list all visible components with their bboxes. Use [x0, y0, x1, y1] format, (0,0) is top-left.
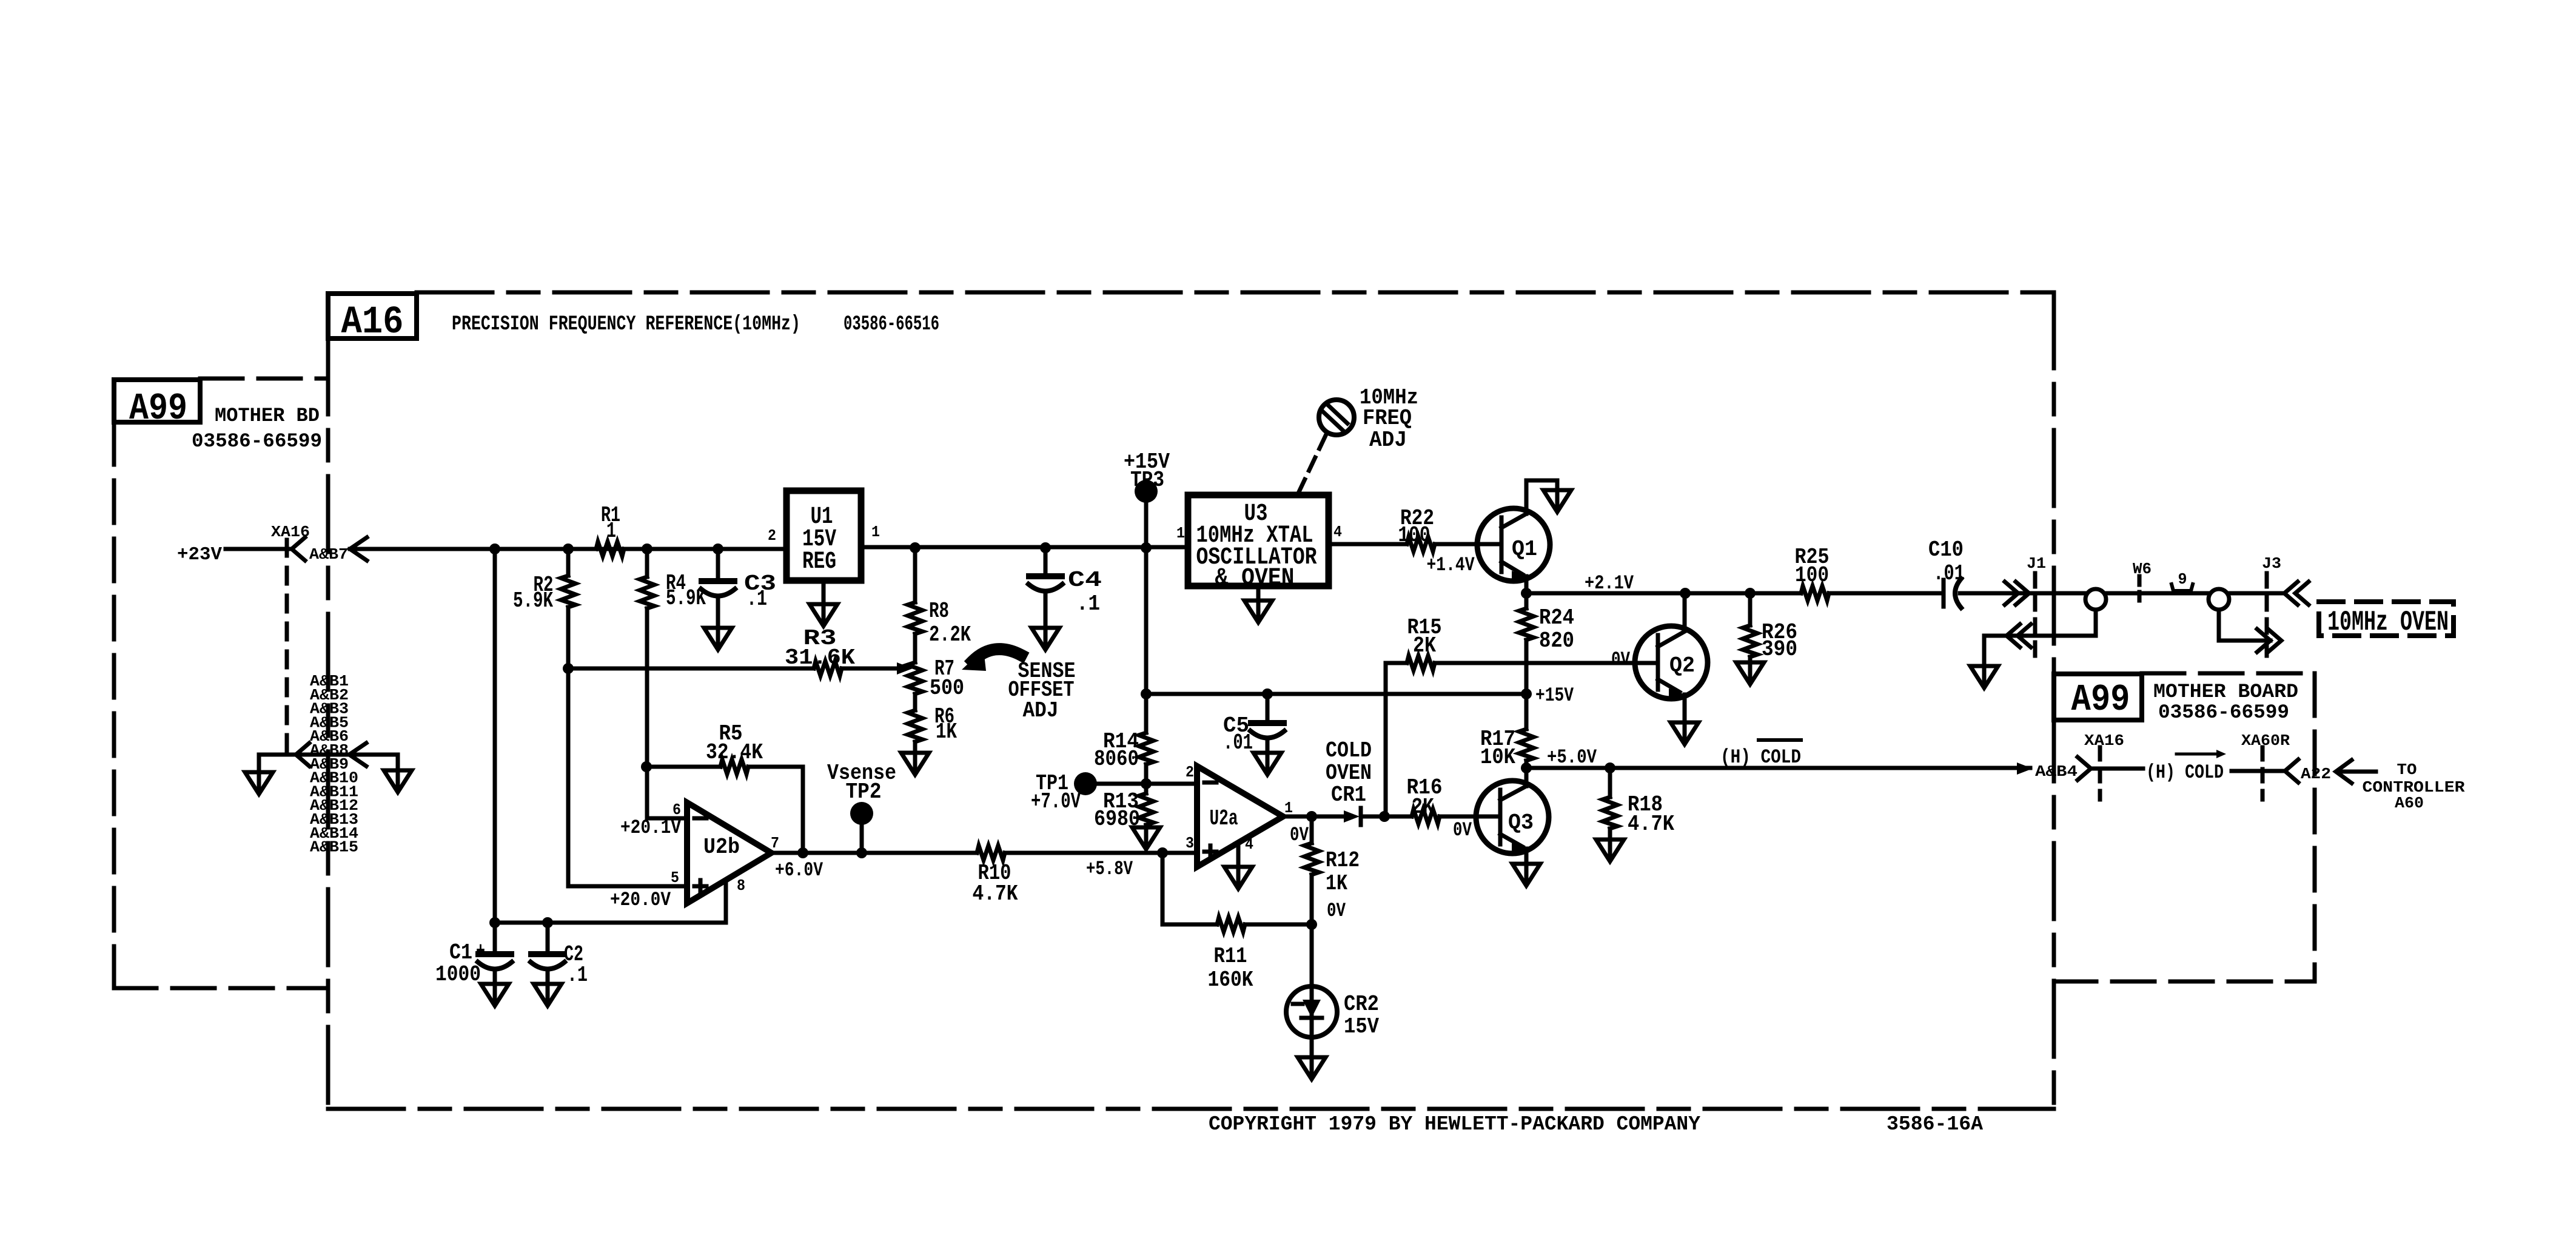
connector XA16 right dashed line: [2098, 747, 2102, 799]
junction R4-R5: [641, 761, 652, 772]
test point TP3: [1124, 449, 1170, 548]
svg-text:10K: 10K: [1480, 745, 1515, 770]
svg-text:C1: C1: [449, 940, 472, 965]
node +20.0V: [610, 889, 671, 911]
svg-text:ADJ: ADJ: [1369, 428, 1407, 453]
junction Q1 emitter: [1521, 588, 1532, 599]
svg-text:C10: C10: [1928, 537, 1964, 562]
junction at R8: [910, 542, 921, 553]
svg-text:REG: REG: [802, 548, 836, 576]
resistor R13: [1094, 789, 1153, 832]
pin 5 label U2b: [671, 869, 679, 887]
connector pin A&B7 label: [309, 545, 348, 564]
connector pin A22 label: [2301, 765, 2331, 783]
pin 4 label U3: [1333, 523, 1342, 541]
junction at C1 drop: [489, 544, 500, 554]
svg-text:500: 500: [930, 676, 964, 701]
svg-text:3586-16A: 3586-16A: [1887, 1113, 1983, 1136]
ground under C2: [534, 984, 562, 1006]
junction TP2: [856, 847, 867, 858]
connector J3 dashed line: [2265, 573, 2269, 661]
svg-text:5.9K: 5.9K: [513, 588, 553, 613]
junction at TP1: [1141, 778, 1152, 789]
wire U2a out to CR1: [1283, 815, 1344, 819]
ground under C4: [1031, 628, 1059, 650]
svg-text:15V: 15V: [1344, 1014, 1379, 1039]
junction at C3: [713, 544, 723, 554]
to controller label: [2363, 761, 2465, 812]
wire +2.1V rail: [1526, 591, 1801, 596]
ground under U3: [1244, 586, 1272, 622]
svg-text:100: 100: [1795, 563, 1829, 588]
capacitor C1: [435, 923, 512, 987]
connector XA16 left dashed line: [285, 540, 289, 763]
pin 2 label U1: [768, 527, 776, 545]
resistor R6: [908, 704, 957, 753]
wire A&B8/A&B9 ground line: [259, 755, 398, 772]
wire A&B4 to (H)COLD: [2091, 767, 2143, 771]
A99 right label text: [2071, 678, 2130, 721]
resistor R26: [1743, 593, 1797, 662]
svg-text:+20.0V: +20.0V: [610, 889, 671, 911]
svg-text:TO: TO: [2397, 761, 2417, 779]
svg-text:R11: R11: [1214, 944, 1247, 969]
wire J3 return: [2219, 610, 2270, 641]
svg-text:2.2K: 2.2K: [929, 622, 971, 647]
node +15V label: [1535, 684, 1574, 707]
wire U2b output: [771, 851, 977, 855]
svg-text:A60: A60: [2395, 794, 2424, 812]
svg-text:A&B4: A&B4: [2035, 762, 2078, 781]
svg-text:Q1: Q1: [1512, 537, 1537, 562]
svg-text:03586-66599: 03586-66599: [2158, 701, 2289, 724]
pin 2 label U2a: [1186, 763, 1194, 781]
A99 right label box: [2054, 674, 2142, 720]
svg-text:+23V: +23V: [177, 544, 222, 565]
wire (H)COLD to A22: [2232, 769, 2285, 773]
junction R11-R12-CR2: [1306, 919, 1317, 930]
capacitor C4: [1028, 548, 1102, 628]
op-amp U2b: [687, 803, 771, 903]
resistor R4: [640, 549, 706, 818]
zener CR2: [1286, 924, 1379, 1057]
junction R24-R17: [1521, 688, 1532, 699]
wire C1-C2-pin8 rail: [495, 921, 726, 925]
resistor R11: [1162, 917, 1312, 992]
A99 left label box: [114, 380, 200, 422]
wire C10 to J1: [1960, 591, 2029, 596]
connector J1 dashed line: [2033, 573, 2038, 661]
ground under CR2: [1298, 1057, 1326, 1079]
10MHz oven box: [2319, 602, 2454, 636]
junction at R4: [642, 544, 652, 554]
junction U2a pin3: [1157, 847, 1168, 858]
wire R22 to Q1 base: [1435, 542, 1501, 547]
capacitor C3: [701, 549, 776, 628]
junction R12 top: [1306, 811, 1317, 822]
cable W6 bullet 2: [2209, 589, 2229, 610]
wire +15V vertical drop: [1144, 548, 1149, 733]
svg-text:03586-66599: 03586-66599: [192, 430, 322, 453]
svg-text:C4: C4: [1068, 568, 1102, 593]
wire J1 return: [1984, 610, 2096, 666]
wire J1 to W6: [2029, 591, 2284, 596]
node 0V at R12 bottom: [1327, 900, 1346, 922]
svg-text:+5.8V: +5.8V: [1086, 858, 1133, 880]
node +2.1V: [1585, 572, 1634, 594]
test point TP1: [1031, 771, 1146, 814]
junction R15 drop: [1379, 811, 1390, 822]
A16 label text: [341, 301, 404, 345]
pin 8 label U2b: [737, 877, 745, 895]
wire +5.0V to A&B4: [1526, 766, 2030, 770]
resistor R3: [568, 626, 903, 676]
sense offset adj arrow: [962, 649, 1021, 671]
A16 board border: [328, 292, 2054, 1109]
resistor R22: [1398, 506, 1435, 551]
svg-text:820: 820: [1539, 628, 1574, 653]
svg-text:+: +: [476, 939, 485, 964]
svg-text:Q3: Q3: [1508, 810, 1534, 835]
resistor R18: [1603, 768, 1674, 840]
pin 1 label U3: [1176, 524, 1185, 542]
wire arrowhead at A&B9: [349, 743, 366, 766]
wire +23V to C1: [493, 549, 497, 923]
resistor R15: [1386, 615, 1658, 670]
junction at R2: [563, 544, 574, 554]
svg-text:U2b: U2b: [703, 835, 740, 860]
svg-text:390: 390: [1762, 637, 1797, 662]
svg-text:+1.4V: +1.4V: [1427, 554, 1475, 576]
svg-text:31.6K: 31.6K: [785, 645, 855, 670]
svg-text:A16: A16: [341, 301, 404, 345]
ground under Q3: [1512, 864, 1540, 886]
cable W6 label: [2133, 560, 2152, 578]
A99 left label text: [129, 387, 187, 430]
svg-text:8060: 8060: [1094, 747, 1139, 772]
node 0V at Q3 base: [1453, 819, 1472, 841]
potentiometer R7: [908, 656, 964, 701]
cable W6 dashed tick: [2138, 576, 2142, 605]
connector J3 chevrons: [2284, 582, 2309, 605]
connector pin A22 chevron: [2285, 759, 2298, 782]
mother bd text: [192, 405, 322, 453]
svg-text:4.7K: 4.7K: [973, 881, 1018, 906]
wire +15V horizontal: [1146, 692, 1526, 696]
svg-text:3: 3: [1186, 834, 1194, 852]
wire U2a pin4 ground: [1236, 843, 1241, 867]
connector J1 chevrons: [2005, 582, 2029, 605]
capacitor C2: [531, 923, 588, 988]
svg-text:(H) COLD: (H) COLD: [2146, 761, 2224, 784]
resistor R17: [1480, 694, 1534, 770]
connector J1 label: [2027, 554, 2046, 573]
node (H) COLD left: [1720, 740, 1801, 769]
svg-text:5: 5: [671, 869, 679, 887]
svg-text:FREQ: FREQ: [1363, 406, 1412, 431]
A99 left board border: [114, 379, 328, 988]
resistor R14: [1094, 729, 1153, 793]
svg-text:0V: 0V: [1453, 819, 1472, 841]
ground under R13: [1132, 827, 1160, 849]
svg-text:1K: 1K: [1326, 871, 1347, 896]
ground right of A&B list: [384, 770, 412, 792]
ground under C3: [704, 628, 732, 650]
svg-text:4: 4: [1333, 523, 1342, 541]
resistor R25: [1795, 545, 1830, 601]
svg-text:4: 4: [1245, 835, 1253, 853]
wire arrowhead at A&B4: [2017, 762, 2033, 775]
ground under Q2: [1671, 722, 1699, 744]
svg-text:8: 8: [737, 877, 745, 895]
node +1.4V: [1427, 554, 1475, 576]
node 0V at Q2 base: [1611, 648, 1631, 671]
connector pin A&B8 chevron: [296, 743, 309, 766]
svg-text:1: 1: [871, 523, 880, 541]
wire pin3 to R11: [1161, 853, 1165, 924]
svg-text:XA16: XA16: [2084, 732, 2124, 750]
ground at Q1 collector: [1526, 480, 1571, 512]
junction C1: [489, 917, 500, 928]
svg-text:CR1: CR1: [1331, 782, 1366, 807]
board part number: [844, 313, 939, 336]
voltage regulator U1: [787, 491, 861, 581]
connector XA60R label: [2241, 732, 2290, 750]
connector J1 return chevrons: [2007, 624, 2031, 647]
ground under U2a: [1224, 867, 1252, 889]
svg-text:J3: J3: [2262, 554, 2281, 573]
resistor R2: [513, 549, 575, 668]
svg-text:+6.0V: +6.0V: [775, 859, 823, 881]
transistor Q3: [1476, 768, 1549, 864]
resistor R8: [908, 548, 971, 662]
svg-text:TP2: TP2: [846, 779, 882, 804]
node +20.1V: [620, 816, 682, 839]
wire U1 output rail: [861, 545, 1188, 550]
pin 1 label U1: [871, 523, 880, 541]
ground under C1: [481, 984, 509, 1006]
wiper arrow into R7: [897, 662, 913, 675]
node +5.8V: [1086, 858, 1133, 880]
diode CR1: [1344, 808, 1412, 825]
wire R15 left drop: [1384, 663, 1388, 816]
svg-text:03586-66516: 03586-66516: [844, 313, 939, 336]
resistor R1: [596, 503, 624, 556]
junction Q2 collector: [1680, 588, 1691, 599]
svg-text:A22: A22: [2301, 765, 2331, 783]
junction at C4: [1040, 542, 1051, 553]
wire U2b pin6 feed: [647, 816, 687, 821]
svg-text:10MHz OVEN: 10MHz OVEN: [2327, 607, 2449, 638]
pin 3 label U2a: [1186, 834, 1194, 852]
wire number 9 label: [2172, 570, 2193, 591]
svg-text:.1: .1: [1076, 591, 1100, 616]
sense offset adj label: [1008, 659, 1076, 723]
resistor R12: [1304, 816, 1360, 924]
svg-text:+2.1V: +2.1V: [1585, 572, 1634, 594]
resistor R10: [973, 846, 1198, 906]
freq adj dashed link: [1298, 436, 1326, 493]
svg-text:COLD: COLD: [1326, 738, 1372, 763]
oscillator U3: [1188, 495, 1329, 592]
svg-text:TP3: TP3: [1130, 468, 1164, 493]
junction +15V line: [1141, 688, 1152, 699]
svg-text:ADJ: ADJ: [1023, 698, 1059, 723]
connector pin A&B4 label: [2035, 762, 2078, 781]
svg-text:4.7K: 4.7K: [1628, 812, 1674, 836]
svg-text:PRECISION FREQUENCY REFERENCE(: PRECISION FREQUENCY REFERENCE(10MHz): [452, 313, 800, 336]
svg-text:A&B15: A&B15: [310, 838, 358, 857]
wire U2b pin8: [724, 880, 728, 923]
node +6.0V: [775, 859, 823, 881]
cold oven label: [1326, 738, 1372, 807]
A99 right board border: [2054, 673, 2315, 981]
connector pin A&B4 chevron: [2078, 757, 2091, 780]
svg-text:MOTHER BOARD: MOTHER BOARD: [2153, 681, 2298, 703]
freq adj trimmer: [1319, 400, 1354, 435]
junction R2-R3: [563, 663, 574, 674]
ground left of A&B list: [245, 772, 273, 794]
wire +23V to connector: [226, 547, 292, 551]
ground under R26: [1736, 662, 1764, 684]
connector J3 label: [2262, 554, 2281, 573]
node (H) COLD right: [2146, 750, 2226, 784]
ground under C5: [1253, 753, 1281, 775]
junction +5.0V node: [1521, 762, 1532, 773]
transistor Q1: [1477, 480, 1550, 593]
copyright text: [1209, 1113, 1700, 1136]
svg-text:2K: 2K: [1413, 633, 1436, 658]
junction R26: [1745, 588, 1756, 599]
svg-text:.01: .01: [1223, 730, 1253, 755]
wire U3 pin4 to R22: [1329, 542, 1407, 547]
svg-text:R12: R12: [1326, 848, 1360, 873]
svg-text:COPYRIGHT 1979 BY HEWLETT-PACK: COPYRIGHT 1979 BY HEWLETT-PACKARD COMPAN…: [1209, 1113, 1700, 1136]
A16 label box: [328, 294, 417, 338]
mother board text: [2153, 681, 2298, 724]
connector XA60R dashed line: [2261, 747, 2265, 799]
svg-text:OVEN: OVEN: [1326, 761, 1372, 786]
wire arrowhead at A&B7: [350, 537, 367, 560]
test point TP2: [827, 761, 896, 853]
capacitor C5: [1223, 694, 1284, 755]
connector XA16 right label: [2084, 732, 2124, 750]
wire to controller arrow: [2336, 760, 2376, 783]
svg-text:A99: A99: [2071, 678, 2130, 721]
svg-text:U2a: U2a: [1210, 806, 1238, 831]
svg-text:.01: .01: [1933, 561, 1965, 586]
connector pin A&B7 chevron: [292, 537, 305, 560]
pin 7 label U2b: [771, 834, 779, 852]
svg-text:100: 100: [1398, 523, 1431, 548]
svg-text:1000: 1000: [435, 962, 481, 987]
svg-text:+15V: +15V: [1535, 684, 1574, 707]
connector J3 return chevrons: [2257, 629, 2281, 652]
wire +20.0V feed down: [568, 668, 687, 886]
resistor R5: [646, 721, 803, 853]
drawing number: [1887, 1113, 1983, 1136]
resistor R24: [1519, 593, 1574, 694]
ground under R6: [901, 753, 929, 775]
svg-text:XA60R: XA60R: [2241, 732, 2290, 750]
node +23V: [177, 544, 222, 565]
svg-text:32.4K: 32.4K: [706, 740, 763, 765]
svg-text:MOTHER BD: MOTHER BD: [215, 405, 320, 427]
svg-text:+7.0V: +7.0V: [1031, 789, 1081, 814]
ground under U1: [810, 581, 837, 626]
svg-text:A99: A99: [129, 387, 187, 430]
svg-text:W6: W6: [2133, 560, 2152, 578]
wire R25 to C10: [1829, 591, 1944, 596]
svg-text:0V: 0V: [1611, 648, 1631, 671]
10MHz oven label: [2327, 607, 2449, 638]
junction R5 drop: [797, 847, 808, 858]
svg-text:.1: .1: [567, 963, 588, 988]
pin 6 label U2b: [673, 801, 681, 819]
svg-text:CR2: CR2: [1344, 992, 1379, 1017]
svg-text:.1: .1: [746, 587, 767, 611]
svg-text:7: 7: [771, 834, 779, 852]
svg-text:Q2: Q2: [1669, 653, 1695, 678]
ground under R18: [1596, 840, 1624, 861]
svg-text:1: 1: [1176, 524, 1185, 542]
junction at C5: [1262, 688, 1273, 699]
pin 4 label U2a: [1245, 835, 1253, 853]
freq adj label: [1360, 385, 1418, 453]
junction at TP3: [1141, 542, 1152, 553]
svg-text:2K: 2K: [1412, 795, 1434, 820]
svg-text:R8: R8: [929, 599, 949, 624]
junction R18: [1605, 762, 1615, 773]
svg-text:2: 2: [1186, 763, 1194, 781]
svg-text:1: 1: [606, 519, 616, 544]
ground at J1 return: [1970, 666, 1998, 688]
svg-text:160K: 160K: [1208, 968, 1253, 992]
svg-text:9: 9: [2178, 570, 2187, 588]
svg-text:R24: R24: [1539, 605, 1574, 630]
svg-text:J1: J1: [2027, 554, 2046, 573]
svg-text:0V: 0V: [1327, 900, 1346, 922]
transistor Q2: [1635, 593, 1708, 722]
svg-text:A&B7: A&B7: [309, 545, 348, 564]
cable W6 bullet 1: [2085, 589, 2106, 610]
capacitor C10: [1928, 537, 1965, 608]
pin 1 label U2a: [1284, 799, 1293, 817]
svg-text:1K: 1K: [936, 719, 957, 744]
connector XA16 left label: [271, 523, 310, 541]
wire TP1 node to U2a pin2: [1146, 782, 1197, 786]
resistor R16: [1407, 775, 1501, 824]
node 0V at U2a output: [1290, 824, 1309, 846]
junction C2: [542, 917, 553, 928]
svg-text:2: 2: [768, 527, 776, 545]
connector pins A&B1-A&B15 list: [310, 672, 358, 857]
svg-text:(H) COLD: (H) COLD: [1720, 746, 1801, 769]
wire R1 right: [624, 547, 647, 551]
op-amp U2a: [1197, 766, 1283, 867]
svg-text:+20.1V: +20.1V: [620, 816, 682, 839]
node +5.0V: [1547, 746, 1597, 769]
board title: [452, 313, 800, 336]
svg-text:& OVEN: & OVEN: [1215, 565, 1295, 592]
wire R7 to R6: [913, 694, 917, 710]
wire +23V rail to U1: [350, 547, 787, 551]
svg-text:+5.0V: +5.0V: [1547, 746, 1597, 769]
